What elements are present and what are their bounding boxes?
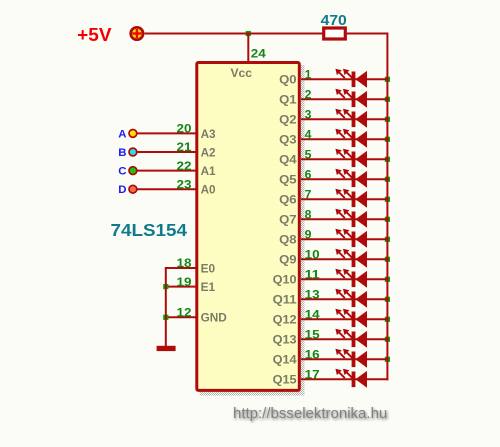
svg-text:Q9: Q9 — [279, 253, 297, 267]
input terminal C — [118, 166, 137, 178]
wire anode rail vertical — [386, 34, 388, 381]
svg-text:D: D — [118, 184, 126, 196]
LED LED7 on Q6 — [335, 189, 367, 208]
svg-text:12: 12 — [177, 306, 192, 320]
svg-text:A2: A2 — [201, 145, 216, 159]
LED LED2 on Q1 — [335, 89, 367, 108]
svg-text:5: 5 — [305, 148, 312, 162]
site watermark — [233, 405, 387, 422]
wire Q13 to LED — [301, 338, 388, 340]
LED LED5 on Q4 — [335, 149, 367, 168]
svg-text:1: 1 — [305, 68, 312, 82]
wire +5V to resistor — [145, 33, 323, 35]
LED LED10 on Q9 — [335, 249, 367, 268]
wire Q6 to LED — [301, 198, 388, 200]
svg-text:Q2: Q2 — [279, 113, 297, 127]
svg-text:17: 17 — [305, 368, 320, 382]
svg-text:Q8: Q8 — [279, 233, 297, 247]
wire Q8 to LED — [301, 238, 388, 240]
LED LED11 on Q10 — [335, 269, 367, 288]
wire E1 stub — [165, 286, 197, 288]
svg-text:Q5: Q5 — [279, 173, 297, 187]
LED LED4 on Q3 — [335, 129, 367, 148]
svg-text:Q11: Q11 — [273, 293, 297, 307]
svg-text:GND: GND — [201, 311, 227, 325]
wire Q10 to LED — [301, 278, 388, 280]
svg-text:Q13: Q13 — [273, 333, 297, 347]
LED LED14 on Q13 — [335, 329, 367, 348]
LED LED1 on Q0 — [335, 69, 367, 88]
svg-text:Q6: Q6 — [279, 193, 297, 207]
LED LED8 on Q7 — [335, 209, 367, 228]
svg-text:+5V: +5V — [77, 25, 111, 45]
wire Q2 to LED — [301, 118, 388, 120]
svg-text:A3: A3 — [201, 127, 216, 141]
wire Q12 to LED — [301, 318, 388, 320]
wire Q9 to LED — [301, 258, 388, 260]
wire Q11 to LED — [301, 298, 388, 300]
LED LED6 on Q5 — [335, 169, 367, 188]
svg-text:Q1: Q1 — [279, 93, 297, 107]
wire Q15 to LED — [301, 378, 388, 380]
wire Q1 to LED — [301, 98, 388, 100]
svg-text:3: 3 — [305, 108, 312, 122]
junction node rail row Q14 — [385, 357, 390, 362]
wire input C to pin A1 — [137, 170, 197, 172]
junction node rail row Q5 — [385, 177, 390, 182]
svg-text:Q7: Q7 — [279, 213, 297, 227]
svg-text:Q3: Q3 — [279, 133, 297, 147]
svg-text:24: 24 — [251, 47, 266, 61]
wire input B to pin A2 — [137, 151, 197, 153]
svg-text:9: 9 — [305, 228, 312, 242]
junction node at Vcc wire / pin 24 — [246, 31, 251, 36]
wire Q14 to LED — [301, 358, 388, 360]
svg-text:C: C — [118, 166, 126, 178]
wire input A to pin A3 — [137, 132, 197, 134]
wire Q3 to LED — [301, 138, 388, 140]
wire Q7 to LED — [301, 218, 388, 220]
svg-text:14: 14 — [305, 308, 320, 322]
svg-text:E0: E0 — [201, 261, 216, 275]
wire Q0 to LED — [301, 78, 388, 80]
svg-text:Q12: Q12 — [273, 313, 297, 327]
junction node rail row Q11 — [385, 297, 390, 302]
junction node E1 — [163, 284, 168, 289]
svg-text:11: 11 — [305, 268, 320, 282]
junction node rail row Q0 — [385, 77, 390, 82]
svg-text:470: 470 — [321, 13, 347, 29]
wire E0 stub — [165, 267, 197, 269]
svg-text:8: 8 — [305, 208, 312, 222]
LED LED12 on Q11 — [335, 289, 367, 308]
junction node rail row Q8 — [385, 237, 390, 242]
LED LED16 on Q15 — [335, 369, 367, 388]
junction node rail row Q9 — [385, 257, 390, 262]
svg-text:74LS154: 74LS154 — [111, 220, 188, 240]
svg-text:2: 2 — [305, 88, 312, 102]
svg-text:A1: A1 — [201, 164, 216, 178]
input terminal B — [118, 147, 137, 159]
LED LED15 on Q14 — [335, 349, 367, 368]
junction node rail row Q1 — [385, 97, 390, 102]
svg-text:A0: A0 — [201, 183, 216, 197]
svg-text:Vcc: Vcc — [231, 66, 253, 80]
svg-text:21: 21 — [177, 140, 192, 154]
wire resistor to rail corner — [347, 33, 389, 35]
wire input D to pin A0 — [137, 188, 197, 190]
svg-text:B: B — [118, 147, 126, 159]
svg-text:Q4: Q4 — [279, 153, 297, 167]
svg-text:22: 22 — [177, 159, 192, 173]
wire Q5 to LED — [301, 178, 388, 180]
svg-text:13: 13 — [305, 288, 320, 302]
wire Q4 to LED — [301, 158, 388, 160]
svg-text:23: 23 — [177, 177, 192, 191]
ground symbol — [157, 346, 176, 351]
svg-text:6: 6 — [305, 168, 312, 182]
svg-text:18: 18 — [177, 256, 192, 270]
wire GND stub — [165, 316, 197, 318]
junction node rail row Q10 — [385, 277, 390, 282]
LED LED9 on Q8 — [335, 229, 367, 248]
resistor R1 — [324, 28, 346, 39]
svg-text:19: 19 — [177, 275, 192, 289]
svg-text:16: 16 — [305, 348, 320, 362]
svg-text:Q15: Q15 — [273, 373, 297, 387]
wire enable/gnd vertical — [165, 268, 167, 346]
junction node rail row Q13 — [385, 337, 390, 342]
junction node rail row Q2 — [385, 117, 390, 122]
input terminal D — [118, 184, 137, 196]
IC U1 74LS154 body — [197, 63, 305, 396]
junction node rail row Q7 — [385, 217, 390, 222]
input terminal A — [118, 128, 137, 140]
junction node rail row Q12 — [385, 317, 390, 322]
svg-text:Q14: Q14 — [273, 353, 297, 367]
junction node rail row Q3 — [385, 137, 390, 142]
svg-text:15: 15 — [305, 328, 320, 342]
svg-text:20: 20 — [177, 122, 192, 136]
svg-text:10: 10 — [305, 248, 320, 262]
svg-text:Q0: Q0 — [279, 73, 297, 87]
svg-text:E1: E1 — [201, 280, 216, 294]
junction node GND — [163, 315, 168, 320]
svg-text:7: 7 — [305, 188, 312, 202]
svg-text:A: A — [118, 128, 126, 140]
junction node rail row Q6 — [385, 197, 390, 202]
LED LED3 on Q2 — [335, 109, 367, 128]
junction node rail row Q4 — [385, 157, 390, 162]
svg-text:4: 4 — [305, 128, 312, 142]
power supply symbol (circle with plus) — [131, 27, 143, 39]
wire pin24 drop — [247, 34, 249, 63]
svg-text:Q10: Q10 — [273, 273, 297, 287]
LED LED13 on Q12 — [335, 309, 367, 328]
